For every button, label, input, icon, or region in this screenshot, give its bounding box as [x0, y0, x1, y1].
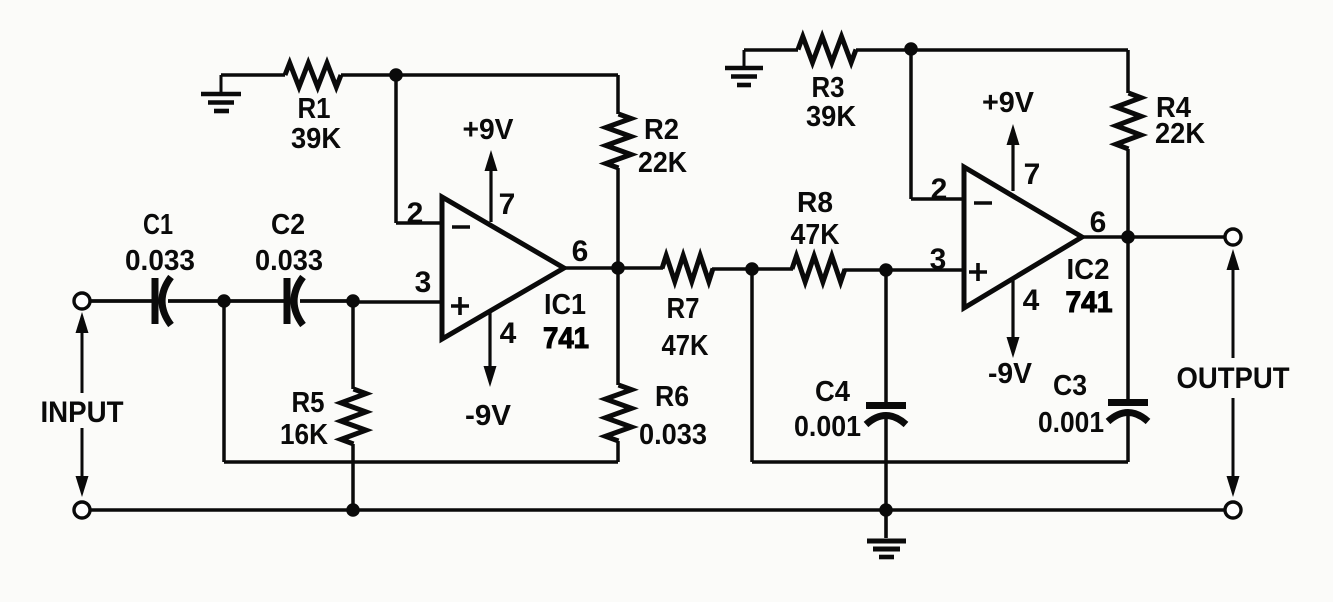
- svg-text:0.033: 0.033: [255, 245, 323, 277]
- node R8/C4 junction: [879, 263, 893, 277]
- input terminal bottom: [74, 502, 90, 518]
- OUTPUT arrow marker: [1227, 249, 1240, 497]
- wire feedback loop down: [750, 269, 754, 462]
- ground stage 2 top: [725, 50, 763, 85]
- svg-text:16K: 16K: [280, 419, 328, 451]
- svg-text:0.001: 0.001: [794, 411, 861, 443]
- wire top to R2: [616, 75, 620, 114]
- svg-text:6: 6: [1090, 206, 1107, 239]
- svg-text:7: 7: [1024, 158, 1041, 191]
- svg-text:C1: C1: [143, 209, 173, 241]
- node ground bottom rail: [879, 503, 893, 517]
- wire top to R4: [1126, 50, 1130, 93]
- svg-text:IC1: IC1: [544, 289, 586, 321]
- node C1/C2 junction: [217, 294, 231, 308]
- svg-text:47K: 47K: [791, 219, 840, 251]
- svg-text:39K: 39K: [806, 101, 856, 133]
- svg-text:741: 741: [543, 322, 589, 355]
- resistor R5 zigzag: [341, 389, 366, 444]
- svg-text:+9V: +9V: [982, 87, 1035, 119]
- wire input to C1: [90, 299, 152, 303]
- wire to IC1 pin 3: [353, 300, 443, 304]
- IC2 inverting input minus sign: [974, 201, 992, 205]
- capacitor C1: [155, 277, 171, 325]
- op-amp U2 IC2 741 triangle: [964, 167, 1082, 308]
- svg-text:R6: R6: [655, 381, 689, 413]
- wire R6 to loop: [616, 441, 620, 462]
- output terminal top: [1225, 229, 1241, 245]
- wire R4 to output node: [1126, 149, 1130, 237]
- node IC1 output: [611, 261, 625, 275]
- svg-text:3: 3: [930, 243, 947, 276]
- wire ground to R1: [221, 73, 285, 77]
- resistor R7: [662, 256, 713, 282]
- node IC2 output: [1121, 230, 1135, 244]
- svg-text:4: 4: [1023, 284, 1040, 317]
- svg-text:0.033: 0.033: [639, 419, 707, 451]
- input terminal top: [74, 293, 90, 309]
- svg-text:C3: C3: [1053, 370, 1087, 402]
- resistor R6 zigzag: [606, 385, 632, 441]
- svg-text:47K: 47K: [662, 330, 709, 362]
- svg-text:6: 6: [572, 235, 589, 268]
- svg-text:2: 2: [407, 197, 424, 230]
- svg-text:7: 7: [499, 188, 516, 221]
- wire output node to C3: [1126, 237, 1130, 399]
- IC2 -9V supply arrow pin 4: [1007, 278, 1020, 358]
- capacitor C2: [287, 277, 303, 325]
- wire R3 to R4 top: [856, 48, 1128, 52]
- svg-text:-9V: -9V: [465, 400, 512, 432]
- wire junction to C2: [224, 299, 284, 303]
- wire feedback loop stage 2: [752, 460, 1128, 464]
- IC1 -9V supply arrow pin 4: [484, 310, 497, 387]
- wire IC2 output to terminal: [1082, 235, 1225, 239]
- svg-text:+9V: +9V: [463, 114, 515, 146]
- svg-text:0.001: 0.001: [1038, 407, 1104, 439]
- svg-text:C2: C2: [271, 209, 305, 241]
- svg-text:IC2: IC2: [1067, 254, 1110, 286]
- svg-text:OUTPUT: OUTPUT: [1177, 362, 1290, 395]
- wire ground to R3: [744, 48, 798, 52]
- resistor R3: [798, 37, 856, 63]
- svg-text:741: 741: [1066, 286, 1113, 319]
- wire C3 to loop: [1126, 413, 1130, 462]
- node junction R3/pin2: [904, 42, 918, 56]
- wire C2 to junction: [300, 299, 353, 303]
- node junction R1/pin2: [389, 68, 403, 82]
- wire junction down to pin 2: [394, 75, 398, 223]
- svg-text:C4: C4: [815, 376, 850, 408]
- node C2/R5/pin3 junction: [346, 294, 360, 308]
- IC2 non-inverting input plus sign: [969, 263, 987, 281]
- IC2 +9V supply arrow pin 7: [1007, 124, 1020, 191]
- svg-text:R7: R7: [667, 293, 700, 325]
- svg-text:22K: 22K: [638, 147, 687, 179]
- wire R8 to IC2 pin 3: [844, 268, 964, 272]
- IC1 +9V supply arrow pin 7: [485, 150, 498, 222]
- wire junction down to pin 2: [909, 49, 913, 199]
- op-amp U1 IC1 741 triangle: [442, 197, 564, 339]
- IC1 inverting input minus sign: [452, 225, 470, 229]
- svg-text:R2: R2: [644, 114, 679, 146]
- wire loop stage 1: [224, 460, 618, 464]
- svg-text:0.033: 0.033: [125, 245, 195, 277]
- wire R7 to R8: [712, 267, 793, 271]
- svg-text:-9V: -9V: [988, 358, 1033, 390]
- svg-text:R8: R8: [797, 187, 833, 219]
- wire junction down (left loop): [222, 301, 226, 462]
- IC1 non-inverting input plus sign: [451, 297, 469, 315]
- output terminal bottom: [1225, 502, 1241, 518]
- wire C1 to junction: [168, 299, 224, 303]
- wire output node down to R6: [616, 268, 620, 385]
- svg-text:R3: R3: [812, 72, 845, 104]
- wire R2 to output node: [616, 168, 620, 268]
- svg-text:2: 2: [931, 173, 948, 206]
- resistor R1: [285, 63, 341, 87]
- INPUT arrow marker: [76, 312, 89, 497]
- wire C4 to ground rail: [884, 416, 888, 510]
- svg-text:39K: 39K: [291, 123, 341, 155]
- bottom rail wire: [90, 508, 1225, 512]
- resistor R8: [792, 256, 845, 282]
- ground top-left: [201, 75, 241, 111]
- node R5 bottom rail: [346, 503, 360, 517]
- wire to IC1 pin 2: [396, 221, 443, 225]
- wire R5 to bottom rail: [351, 444, 355, 510]
- wire IC1 output to R7: [564, 266, 663, 270]
- svg-text:INPUT: INPUT: [41, 396, 124, 429]
- svg-text:22K: 22K: [1155, 118, 1205, 150]
- ground bottom middle: [867, 510, 906, 557]
- svg-text:R5: R5: [292, 387, 325, 419]
- node R7/R8 junction: [745, 262, 759, 276]
- wire junction to C4: [884, 270, 888, 402]
- svg-text:3: 3: [415, 266, 432, 299]
- wire junction to R5: [351, 301, 355, 389]
- svg-text:4: 4: [500, 317, 517, 350]
- wire to IC2 pin 2: [911, 197, 964, 201]
- resistor R2: [606, 114, 631, 168]
- wire R1 to R2 top: [341, 73, 618, 77]
- resistor R4: [1116, 93, 1141, 149]
- svg-text:R1: R1: [298, 93, 331, 125]
